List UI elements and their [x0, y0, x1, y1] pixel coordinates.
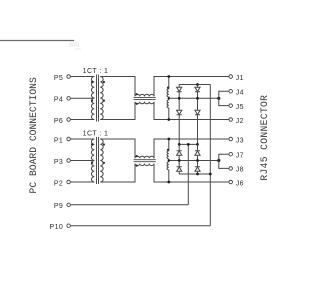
- svg-text:P2: P2: [54, 180, 63, 187]
- svg-text:J1: J1: [236, 75, 244, 82]
- node mid rail2 column1: [178, 159, 181, 162]
- terminal P5: [67, 75, 94, 79]
- wire channel2 tap line: [179, 143, 197, 145]
- wire T2 secondary bottom to choke L2: [100, 164, 135, 182]
- svg-text:P6: P6: [54, 118, 63, 125]
- choke L2 bottom winding: [135, 164, 154, 166]
- node mid rail2 at inductor: [168, 159, 170, 161]
- svg-text:J6: J6: [236, 180, 244, 187]
- svg-text:1CT : 1: 1CT : 1: [83, 131, 109, 138]
- node mid rail2 column2: [196, 159, 199, 162]
- terminal P1: [67, 137, 94, 141]
- svg-text:J8: J8: [236, 167, 244, 174]
- inductor L3 center-tapped: [167, 77, 169, 120]
- node tops line at column2: [196, 83, 199, 86]
- wire T1 secondary top to choke L1: [100, 77, 135, 97]
- terminal P3: [67, 159, 94, 163]
- node inductor L3 bottom junction: [167, 118, 170, 121]
- terminal P9: [67, 203, 188, 207]
- terminal J7: [229, 152, 233, 156]
- wire T1 secondary bottom to choke L1: [100, 102, 135, 120]
- transformer T1 primary winding: [91, 77, 94, 120]
- node mid rail1 column2: [196, 97, 199, 100]
- diode D8: [195, 161, 200, 175]
- terminal J8: [229, 167, 233, 171]
- wire T2 secondary top to choke L2: [100, 139, 135, 158]
- wire choke L2 bottom out: [154, 164, 229, 182]
- choke L1 polarity dots: [136, 93, 138, 105]
- terminal P4: [67, 97, 94, 101]
- diode D7: [195, 144, 200, 160]
- node bottoms line P10 vertical: [209, 173, 212, 176]
- inductor L4 polarity dot: [167, 149, 169, 151]
- node J4 J5 tap: [217, 97, 220, 100]
- svg-text:PC BOARD CONNECTIONS: PC BOARD CONNECTIONS: [28, 77, 39, 193]
- node inductor L4 bottom junction: [167, 181, 170, 184]
- node mid rail1 column1: [178, 97, 181, 100]
- diode D6: [177, 161, 182, 175]
- wire J5 branch: [219, 98, 229, 105]
- svg-text:J5: J5: [236, 104, 244, 111]
- wire channel1 diode tops line: [179, 84, 210, 86]
- svg-text:P3: P3: [54, 159, 63, 166]
- wire choke L1 top out: [154, 77, 229, 97]
- terminal J3: [229, 137, 233, 141]
- terminal P6: [67, 118, 94, 122]
- faint erased text remnant: [69, 42, 81, 50]
- terminal J5: [229, 104, 233, 108]
- svg-text:P1: P1: [54, 137, 63, 144]
- terminal J6: [229, 180, 233, 184]
- choke L1 top winding: [135, 94, 154, 96]
- terminal P10: [67, 224, 210, 228]
- svg-text:1CT : 1: 1CT : 1: [83, 68, 109, 75]
- node bottoms line column2: [196, 173, 199, 176]
- transformer T1 polarity dots: [91, 81, 105, 102]
- node tap line P9 vertical: [187, 143, 190, 146]
- svg-text:RJ45 CONNECTOR: RJ45 CONNECTOR: [259, 95, 270, 181]
- wire channel2 mid rail: [169, 160, 219, 162]
- svg-text:P10: P10: [50, 224, 64, 231]
- wire vertical net to P9: [187, 144, 189, 204]
- wire channel1 mid rail: [169, 97, 219, 99]
- choke L2 polarity dots: [136, 155, 138, 167]
- svg-text:P4: P4: [54, 97, 63, 104]
- node J7 J8 tap: [217, 159, 220, 162]
- inductor L3 polarity dot: [167, 87, 169, 89]
- transformer T2 secondary winding: [100, 139, 103, 182]
- svg-text:J2: J2: [236, 118, 244, 125]
- node tap line column2: [196, 143, 199, 146]
- terminal J1: [229, 75, 233, 79]
- svg-text:P5: P5: [54, 75, 63, 82]
- diode D1: [177, 85, 182, 99]
- inductor L4 center-tapped: [167, 139, 169, 182]
- node inductor L4 top junction: [167, 138, 170, 141]
- wire choke L2 top out: [154, 139, 229, 158]
- diode D4: [195, 98, 200, 144]
- choke L1 bottom winding: [135, 102, 154, 104]
- node inductor L3 top junction: [167, 75, 170, 78]
- transformer T1 secondary winding: [100, 77, 103, 120]
- terminal P2: [67, 180, 94, 184]
- transformer T1 core: [97, 75, 99, 122]
- transformer T2 polarity dots: [91, 143, 105, 164]
- svg-text:P9: P9: [54, 203, 63, 210]
- wire J7 branch: [219, 154, 229, 160]
- wire J8 branch: [219, 161, 229, 169]
- wire channel2 diode bottoms line: [179, 173, 210, 175]
- wire top-left partial line: [0, 40, 74, 42]
- node tap line column1: [178, 143, 181, 146]
- choke L2 core: [134, 160, 156, 162]
- svg-text:J3: J3: [236, 137, 244, 144]
- choke L2 top winding: [135, 156, 154, 158]
- transformer T2 core: [97, 137, 99, 184]
- wire J4 branch: [219, 91, 229, 98]
- svg-text:J4: J4: [236, 90, 244, 97]
- diode D5: [177, 144, 182, 160]
- diode D2: [177, 98, 182, 144]
- choke L1 core: [134, 98, 156, 100]
- wire vertical net to P10: [209, 85, 211, 226]
- diode D3: [195, 85, 200, 99]
- node mid rail1 at inductor: [168, 97, 170, 99]
- terminal J2: [229, 118, 233, 122]
- transformer T2 primary winding: [91, 139, 94, 182]
- wire choke L1 bottom out: [154, 102, 229, 120]
- svg-text:J7: J7: [236, 153, 244, 160]
- terminal J4: [229, 89, 233, 93]
